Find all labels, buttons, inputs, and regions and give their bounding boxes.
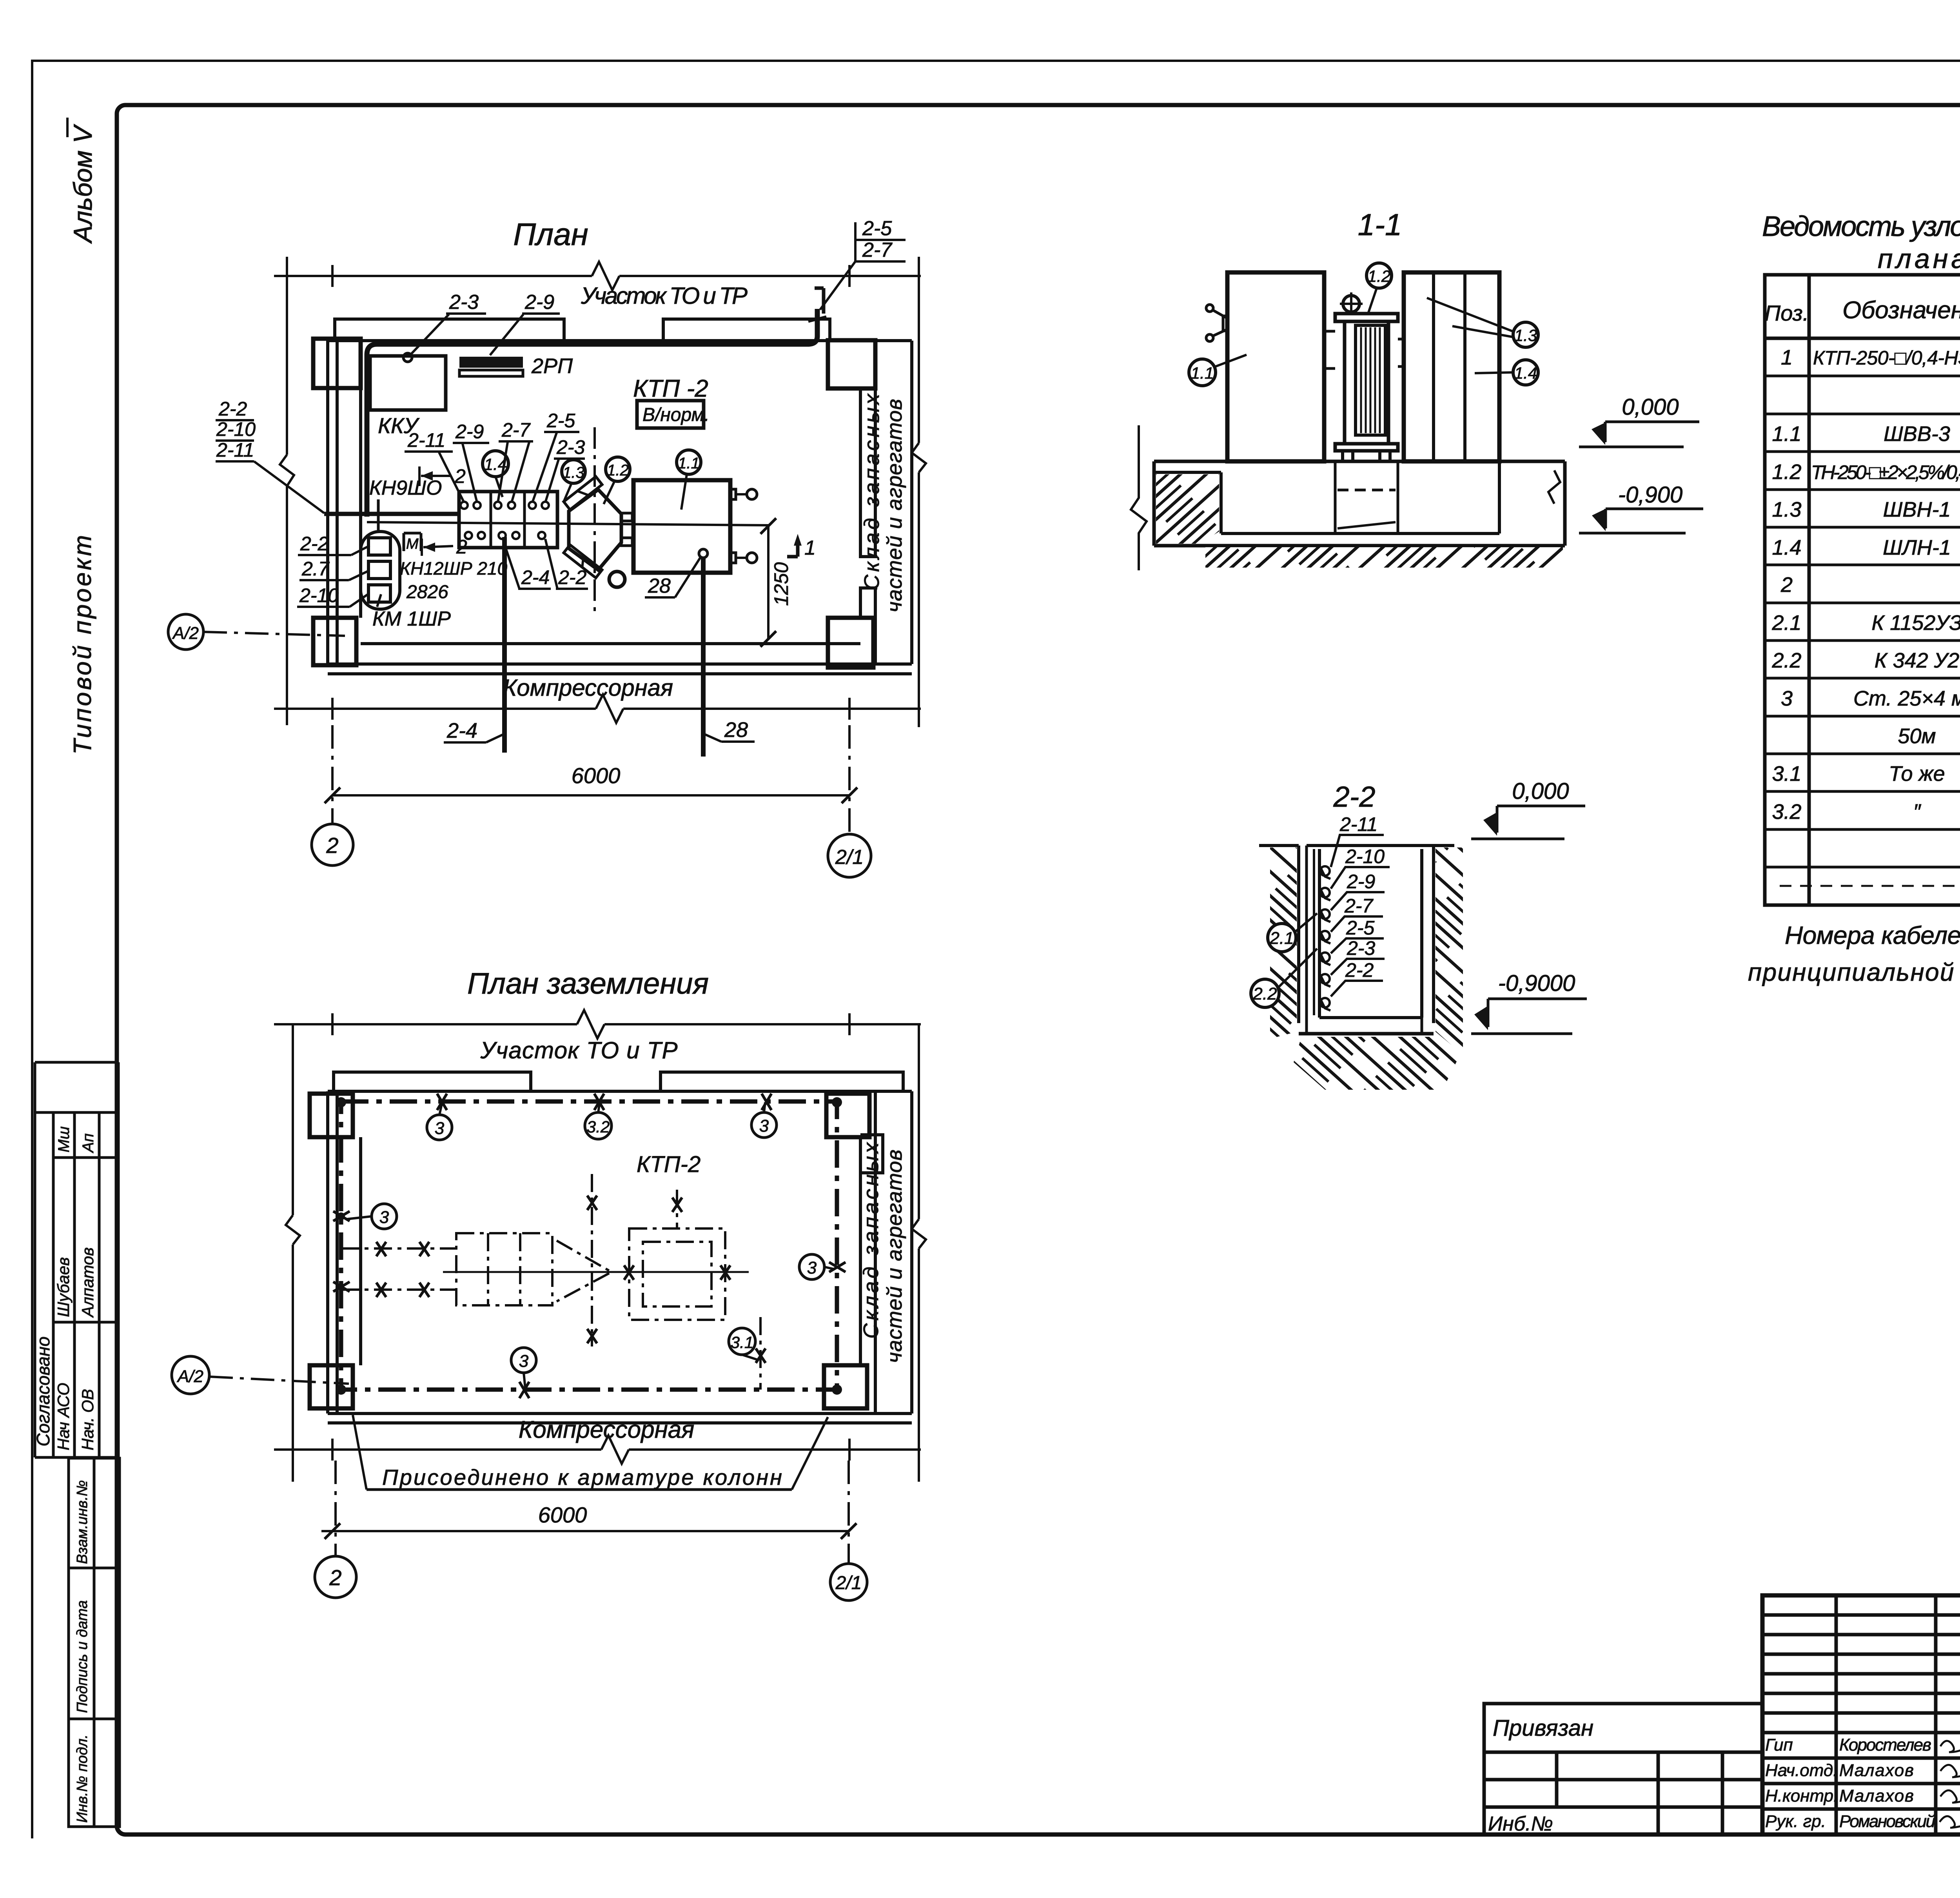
svg-text:2-11: 2-11 bbox=[407, 429, 445, 451]
svg-text:2-7: 2-7 bbox=[862, 239, 893, 261]
svg-text:1.2: 1.2 bbox=[607, 462, 629, 479]
svg-text:2РП: 2РП bbox=[531, 354, 573, 378]
svg-text:2.1: 2.1 bbox=[1771, 611, 1801, 635]
svg-text:План: План bbox=[513, 217, 588, 252]
svg-text:Взам.инв.№: Взам.инв.№ bbox=[74, 1480, 91, 1564]
svg-text:2.2: 2.2 bbox=[1252, 984, 1277, 1003]
svg-text:2-4: 2-4 bbox=[446, 719, 477, 742]
svg-text:А/2: А/2 bbox=[172, 624, 199, 643]
svg-text:2-3: 2-3 bbox=[556, 436, 585, 458]
svg-text:ШВН-1: ШВН-1 bbox=[1883, 498, 1951, 521]
svg-text:Подпись и дата: Подпись и дата bbox=[74, 1600, 91, 1713]
svg-text:2.2: 2.2 bbox=[1771, 649, 1801, 672]
svg-text:Нач АСО: Нач АСО bbox=[54, 1383, 73, 1450]
svg-text:1.2: 1.2 bbox=[1772, 460, 1801, 484]
svg-text:1: 1 bbox=[1781, 346, 1793, 369]
svg-text:6000: 6000 bbox=[572, 763, 621, 788]
svg-text:28: 28 bbox=[648, 575, 671, 597]
svg-text:2-5: 2-5 bbox=[546, 410, 575, 432]
svg-text:К 342 У2: К 342 У2 bbox=[1875, 649, 1959, 672]
svg-text:2-3: 2-3 bbox=[1347, 937, 1375, 959]
svg-text:1.3: 1.3 bbox=[1772, 498, 1801, 521]
svg-text:2-9: 2-9 bbox=[524, 291, 554, 314]
svg-text:2-2: 2-2 bbox=[218, 398, 247, 420]
svg-text:2-10: 2-10 bbox=[216, 418, 256, 440]
svg-text:2/1: 2/1 bbox=[835, 846, 864, 869]
svg-text:Малахов: Малахов bbox=[1839, 1786, 1914, 1805]
svg-text:1.4: 1.4 bbox=[1514, 364, 1537, 382]
svg-text:2-9: 2-9 bbox=[455, 421, 484, 443]
svg-text:3: 3 bbox=[519, 1352, 529, 1371]
svg-text:2/1: 2/1 bbox=[835, 1573, 862, 1593]
svg-text:КМ 1ШР: КМ 1ШР bbox=[372, 608, 451, 630]
svg-text:КТП-2: КТП-2 bbox=[637, 1152, 701, 1177]
svg-text:0,000: 0,000 bbox=[1622, 394, 1679, 420]
svg-text:Гип: Гип bbox=[1765, 1735, 1793, 1755]
svg-text:3.2: 3.2 bbox=[587, 1118, 610, 1136]
svg-text:А/2: А/2 bbox=[176, 1367, 203, 1386]
svg-text:2-11: 2-11 bbox=[1339, 813, 1377, 835]
svg-text:Мш: Мш bbox=[55, 1126, 73, 1152]
svg-text:3.2: 3.2 bbox=[1772, 800, 1801, 824]
svg-text:1250: 1250 bbox=[770, 562, 792, 606]
svg-text:″: ″ bbox=[1913, 800, 1921, 824]
svg-text:1.3: 1.3 bbox=[1514, 326, 1537, 345]
svg-text:1.1: 1.1 bbox=[678, 455, 700, 472]
svg-text:2.7: 2.7 bbox=[301, 558, 330, 580]
svg-text:К 1152УЗ: К 1152УЗ bbox=[1871, 611, 1960, 635]
svg-text:1: 1 bbox=[804, 537, 816, 559]
svg-text:Согласовано: Согласовано bbox=[33, 1336, 53, 1446]
svg-text:Участок ТО и ТР: Участок ТО и ТР bbox=[581, 283, 748, 309]
svg-text:Коростелев: Коростелев bbox=[1839, 1735, 1931, 1755]
svg-text:1.2: 1.2 bbox=[1368, 267, 1390, 285]
svg-text:КН9ШО: КН9ШО bbox=[369, 477, 442, 499]
svg-text:28: 28 bbox=[724, 718, 748, 742]
svg-text:3: 3 bbox=[379, 1208, 389, 1227]
svg-text:ШЛН-1: ШЛН-1 bbox=[1883, 536, 1951, 559]
svg-text:1-1: 1-1 bbox=[1358, 207, 1402, 242]
svg-text:1.4: 1.4 bbox=[1772, 536, 1801, 559]
svg-text:2-2: 2-2 bbox=[1345, 959, 1374, 981]
svg-text:частей и агрегатов: частей и агрегатов bbox=[883, 1150, 906, 1363]
svg-text:План заземления: План заземления bbox=[467, 967, 709, 1000]
svg-text:2-2: 2-2 bbox=[558, 566, 586, 588]
svg-text:ШВВ-3: ШВВ-3 bbox=[1884, 422, 1950, 446]
svg-text:Компрессорная: Компрессорная bbox=[519, 1416, 695, 1443]
svg-text:Алпатов: Алпатов bbox=[78, 1247, 97, 1318]
svg-text:ТН-250-□±2×2,5%/0,4-0,23Ув: ТН-250-□±2×2,5%/0,4-0,23Ув bbox=[1811, 461, 1960, 483]
svg-text:Номера кабелей соответствунт н: Номера кабелей соответствунт номерам при… bbox=[1785, 921, 1960, 949]
svg-text:Привязан: Привязан bbox=[1493, 1715, 1593, 1741]
svg-text:частей и агрегатов: частей и агрегатов bbox=[883, 399, 906, 613]
svg-text:3: 3 bbox=[435, 1119, 445, 1138]
svg-text:-0,9000: -0,9000 bbox=[1498, 971, 1575, 996]
svg-text:Компрессорная: Компрессорная bbox=[503, 675, 673, 701]
svg-text:2-7: 2-7 bbox=[501, 419, 531, 441]
svg-text:2-7: 2-7 bbox=[1344, 895, 1374, 917]
svg-text:2: 2 bbox=[326, 833, 338, 858]
svg-text:Присоединено к арматуре колонн: Присоединено к арматуре колонн bbox=[382, 1465, 782, 1490]
svg-text:Инв.№ подл.: Инв.№ подл. bbox=[74, 1735, 91, 1823]
svg-text:КН12ШР 210: КН12ШР 210 bbox=[400, 558, 507, 579]
svg-text:3: 3 bbox=[1781, 687, 1793, 710]
svg-text:КТП-250-□/0,4-Н3-80УЗ: КТП-250-□/0,4-Н3-80УЗ bbox=[1813, 347, 1960, 369]
svg-text:КТП -2: КТП -2 bbox=[633, 375, 708, 402]
svg-text:Рук. гр.: Рук. гр. bbox=[1765, 1812, 1826, 1831]
svg-text:В/норм.: В/норм. bbox=[642, 405, 710, 425]
svg-text:2: 2 bbox=[456, 536, 467, 558]
svg-text:Шубаев: Шубаев bbox=[54, 1257, 73, 1317]
svg-text:2: 2 bbox=[454, 465, 466, 487]
svg-text:Инб.№: Инб.№ bbox=[1488, 1813, 1553, 1835]
svg-text:2-10: 2-10 bbox=[1345, 846, 1385, 867]
svg-text:6000: 6000 bbox=[538, 1502, 587, 1527]
svg-text:2-4: 2-4 bbox=[521, 566, 550, 588]
svg-text:Ап: Ап bbox=[80, 1133, 97, 1153]
svg-text:-0,900: -0,900 bbox=[1618, 482, 1682, 508]
svg-text:2-2: 2-2 bbox=[1333, 780, 1376, 813]
svg-text:2-5: 2-5 bbox=[1346, 917, 1374, 939]
svg-text:Нач. ОВ: Нач. ОВ bbox=[78, 1389, 97, 1450]
svg-text:50м: 50м bbox=[1898, 724, 1936, 748]
svg-text:Малахов: Малахов bbox=[1839, 1761, 1914, 1780]
svg-text:1.1: 1.1 bbox=[1191, 364, 1214, 382]
svg-text:3: 3 bbox=[807, 1258, 817, 1277]
svg-text:2.1: 2.1 bbox=[1269, 929, 1294, 948]
svg-text:Нач.отд.: Нач.отд. bbox=[1765, 1761, 1838, 1780]
svg-text:1.3: 1.3 bbox=[563, 464, 584, 481]
svg-text:Поз.: Поз. bbox=[1765, 301, 1809, 325]
svg-text:1.1: 1.1 bbox=[1772, 422, 1801, 446]
svg-text:Романовский: Романовский bbox=[1839, 1812, 1935, 1831]
svg-text:2-11: 2-11 bbox=[216, 439, 254, 461]
svg-text:2-2: 2-2 bbox=[300, 533, 328, 555]
svg-text:2-3: 2-3 bbox=[449, 291, 479, 314]
svg-text:3: 3 bbox=[759, 1116, 769, 1136]
svg-text:2-9: 2-9 bbox=[1347, 871, 1375, 893]
svg-text:М: М bbox=[406, 536, 419, 552]
svg-text:3.1: 3.1 bbox=[731, 1333, 753, 1352]
svg-text:2: 2 bbox=[329, 1565, 341, 1590]
svg-text:Ст. 25×4 мм: Ст. 25×4 мм bbox=[1853, 687, 1960, 710]
svg-text:2-5: 2-5 bbox=[862, 217, 892, 240]
svg-text:3.1: 3.1 bbox=[1772, 762, 1801, 786]
svg-text:То же: То же bbox=[1889, 762, 1945, 786]
svg-text:планах расположения: планах расположения bbox=[1878, 243, 1960, 274]
svg-text:Ведомость узлов установки элек: Ведомость узлов установки электрического… bbox=[1762, 211, 1960, 242]
svg-text:Альбом V: Альбом V bbox=[68, 123, 97, 244]
svg-text:Н.контр.: Н.контр. bbox=[1765, 1786, 1838, 1805]
svg-text:2826: 2826 bbox=[406, 582, 448, 602]
svg-text:Участок ТО и ТР: Участок ТО и ТР bbox=[480, 1037, 678, 1063]
svg-text:2: 2 bbox=[1780, 573, 1793, 597]
svg-text:0,000: 0,000 bbox=[1512, 778, 1569, 804]
svg-text:принципиальной схеме КТП-2.: принципиальной схеме КТП-2. bbox=[1748, 958, 1960, 986]
svg-text:Обозначение: Обозначение bbox=[1842, 297, 1960, 324]
svg-text:2-10: 2-10 bbox=[299, 584, 339, 606]
